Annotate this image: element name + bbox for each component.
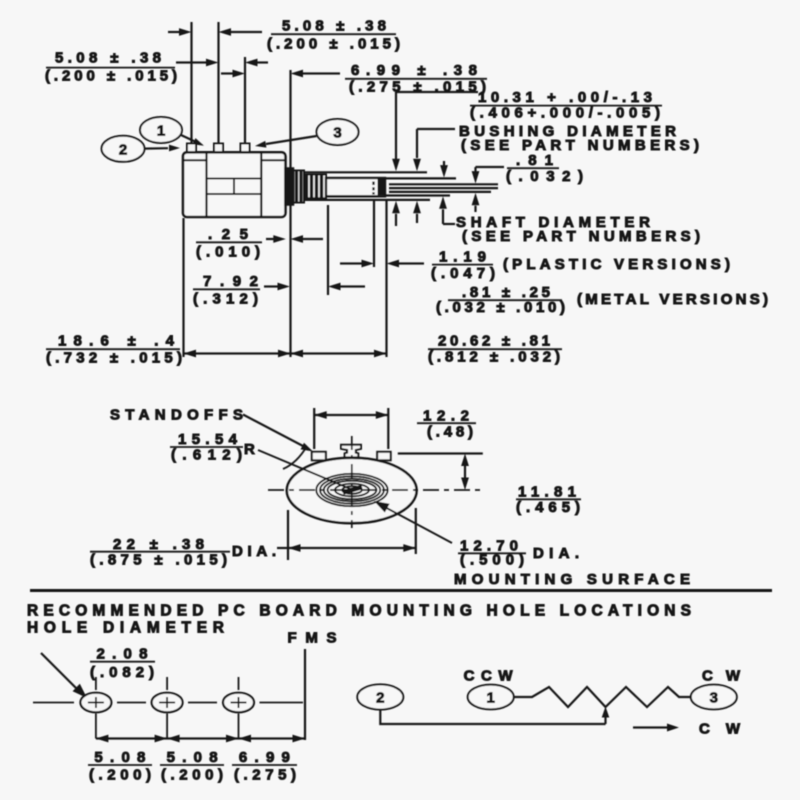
reference line slot upper xyxy=(389,183,498,185)
label 1.19 (.047) xyxy=(431,249,495,283)
svg-text:2: 2 xyxy=(119,141,127,158)
pot body left cap line xyxy=(205,153,207,217)
svg-text:2: 2 xyxy=(376,690,384,707)
shaft end chamfer (dark) xyxy=(378,179,386,195)
svg-text:STANDOFFS: STANDOFFS xyxy=(110,407,243,424)
reference line bushing top xyxy=(302,171,427,173)
label 2.08 (.082) xyxy=(90,646,155,682)
label 6.99 (.275) xyxy=(232,749,297,784)
mounting hole 2 xyxy=(152,693,183,713)
dimension line 6.99 (terminal 3 - mounting surface) xyxy=(221,70,340,78)
pot body band divider xyxy=(233,179,235,195)
label .81 +/- .25 (.032 +/- .010) xyxy=(436,284,565,316)
label 5.08 +/- .38 (.200 +/- .015) top xyxy=(267,18,400,53)
horizontal centerline xyxy=(268,489,481,491)
dimension arrow 11.81 (double) xyxy=(461,454,469,491)
label BUSHING DIAMETER xyxy=(459,123,699,154)
terminal pin 1 xyxy=(187,144,196,153)
FMS line xyxy=(304,649,306,740)
label 5.08 (.200) first xyxy=(88,749,152,784)
balloon 3 leader xyxy=(255,136,317,148)
svg-text:(METAL VERSIONS): (METAL VERSIONS) xyxy=(577,291,768,308)
schematic terminal 1 balloon xyxy=(468,685,514,710)
pot body band lower line xyxy=(207,193,262,195)
adjustment rings (concentric) xyxy=(316,474,387,506)
label CW bottom xyxy=(699,721,741,738)
label FMS xyxy=(288,630,337,647)
wire from terminal 2 to wiper xyxy=(380,710,605,724)
dimension line holes 5.08 / 5.08 / 6.99 xyxy=(96,735,305,743)
dimension line 22 DIA xyxy=(277,544,416,552)
mounting hole 3 centerline ticks xyxy=(238,677,240,739)
svg-text:1: 1 xyxy=(487,690,495,707)
svg-text:CCW: CCW xyxy=(464,668,514,685)
label STANDOFFS xyxy=(110,407,243,424)
pot body right cap line xyxy=(260,153,262,217)
standoff tab right xyxy=(377,452,391,461)
label (PLASTIC VERSIONS) xyxy=(503,256,730,273)
label 11.81 (.465) xyxy=(516,484,581,517)
mounting hole 3 xyxy=(223,693,254,713)
vertical centerline xyxy=(351,436,353,528)
extension line, mounting surface xyxy=(289,70,291,357)
extension line, shaft slot xyxy=(373,199,375,267)
CW rotation arrow xyxy=(633,724,679,732)
mounting hole 2 centerline ticks xyxy=(166,677,168,739)
label CW top xyxy=(702,668,741,685)
dimension line 5.08 top (terminal 1-2) xyxy=(168,28,262,36)
down arrow at shaft top reference xyxy=(440,161,448,178)
dimension line 12.2 xyxy=(314,411,388,419)
leader 12.70 mounting surface xyxy=(374,501,452,543)
balloon 3 (terminal 3) xyxy=(317,119,359,145)
pot body band upper line xyxy=(207,178,262,180)
reference line centerline xyxy=(389,187,498,189)
balloon 2 leader xyxy=(145,145,181,152)
standoff tab left xyxy=(312,452,326,461)
extension line, terminal 3 centerline xyxy=(244,57,246,143)
dimension line 20.62 (mounting surface to shaft end) xyxy=(291,350,387,358)
svg-text:MOUNTING SURFACE: MOUNTING SURFACE xyxy=(454,571,690,588)
pot body right cap shoulder xyxy=(261,159,285,161)
label SHAFT DIAMETER xyxy=(456,214,700,245)
dimension line 1.19 (slot to shaft end) xyxy=(340,260,424,268)
extension line standoff left xyxy=(313,408,315,449)
pot body left cap shoulder xyxy=(184,159,207,161)
up arrow .81 lower xyxy=(472,193,480,212)
reference line slot lower xyxy=(389,191,491,193)
mounting hole 1 xyxy=(80,693,111,713)
extension line front view left xyxy=(287,510,289,560)
extension line, bushing end xyxy=(327,205,329,295)
hole diameter leader arrow xyxy=(41,653,87,698)
bushing boss (dark) xyxy=(285,168,294,205)
label CCW xyxy=(464,668,514,685)
front view body ellipse xyxy=(287,458,417,523)
label DIA. left xyxy=(232,543,276,560)
label R xyxy=(244,441,255,458)
svg-text:3: 3 xyxy=(333,125,341,142)
label .81 (.032) xyxy=(506,152,583,185)
holes centerline xyxy=(33,702,303,704)
balloon 1 leader xyxy=(181,135,204,146)
pot body outline xyxy=(183,152,286,217)
schematic terminal 2 balloon xyxy=(357,684,403,709)
radius arc mark xyxy=(283,446,307,469)
schematic terminal 3 balloon xyxy=(691,685,737,710)
reference line shaft top xyxy=(384,177,456,179)
terminal pin 3 xyxy=(241,144,250,153)
label 12.2 (.48) xyxy=(417,408,476,441)
label .25 (.010) xyxy=(196,226,262,261)
label DIA. right xyxy=(533,545,579,562)
wiper slot mark xyxy=(343,487,362,493)
leader for bushing diameter xyxy=(413,129,455,171)
shaft xyxy=(326,178,385,196)
extension line, body rear face xyxy=(182,218,184,357)
svg-text:18.6 ± .4: 18.6 ± .4 xyxy=(58,333,175,350)
threaded bushing xyxy=(294,171,327,203)
dimension line 7.92 (mounting surface to bushing end) xyxy=(264,283,365,291)
extension line, terminal 1 centerline xyxy=(190,22,192,143)
radius leader 15.54R xyxy=(258,450,353,490)
svg-text:1.19: 1.19 xyxy=(439,249,486,266)
mounting hole 1 centerline ticks xyxy=(95,677,97,739)
resistor element R1 xyxy=(514,687,691,707)
balloon 1 (terminal 1) xyxy=(140,117,182,143)
label 22 +/- .38 (.875 +/- .015) xyxy=(90,536,230,569)
extension line standoff right xyxy=(387,408,389,449)
label (METAL VERSIONS) xyxy=(577,291,768,308)
svg-text:FMS: FMS xyxy=(288,630,337,647)
terminal pin 2 xyxy=(214,144,223,153)
extension line, terminal 2 centerline xyxy=(217,22,219,143)
svg-text:20.62 ± .81: 20.62 ± .81 xyxy=(438,333,550,350)
label 7.92 (.312) xyxy=(193,273,260,308)
label 10.31 +.00/-.13 (.406+.000/-.005) xyxy=(470,89,662,122)
label HOLE DIAMETER xyxy=(27,620,224,637)
wiper arrow xyxy=(602,707,610,725)
leader SHAFT DIAMETER with up arrow xyxy=(439,196,455,224)
reference line shaft bottom xyxy=(384,194,450,196)
dimension line 18.6 (body rear to mounting surface) xyxy=(184,350,291,358)
standoffs leader xyxy=(243,415,313,452)
svg-text:R: R xyxy=(244,441,255,458)
locating lug (FMS) xyxy=(341,445,361,458)
label 5.08 (.200) second xyxy=(160,749,224,784)
label 12.70 (.500) xyxy=(458,538,526,569)
svg-text:3: 3 xyxy=(710,690,718,707)
up arrow bushing bottom left xyxy=(392,201,400,226)
leader for .81 dimension xyxy=(472,167,504,184)
label 5.08 +/- .38 (.200 +/- .015) left xyxy=(45,50,177,85)
label 15.54 R (.612) xyxy=(170,431,243,464)
title RECOMMENDED PC BOARD MOUNTING HOLE LOCATIONS xyxy=(27,603,691,620)
balloon 2 (terminal 2) xyxy=(102,136,145,162)
label MOUNTING SURFACE xyxy=(454,571,690,588)
label 18.6 +/- .4 (.732 +/- .015) xyxy=(46,333,182,367)
svg-text:1: 1 xyxy=(157,123,165,140)
dimension line .25 (body face to mounting surface) xyxy=(266,235,323,243)
reference line standoff top xyxy=(398,452,483,454)
extension line front view right xyxy=(415,508,417,554)
label 6.99 +/- .38 (.275 +/- .015) xyxy=(345,62,487,96)
reference line bushing bottom xyxy=(302,199,430,201)
dimension line 5.08 left (terminal 2-3) xyxy=(176,59,268,67)
extension line, shaft end xyxy=(385,199,387,357)
leader for 10.31 dimension xyxy=(392,92,478,171)
shaft slot dashes xyxy=(372,182,374,195)
label 20.62 +/- .81 (.812 +/- .032) xyxy=(428,333,562,366)
section separator line xyxy=(30,589,772,592)
up arrow bushing bottom right xyxy=(413,201,421,223)
